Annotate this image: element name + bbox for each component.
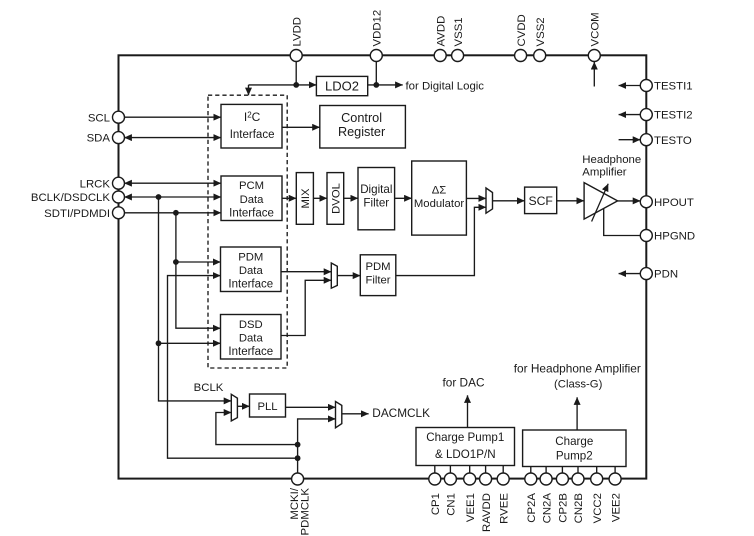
svg-text:for DAC: for DAC (443, 375, 485, 389)
mux M3 PLL clock selector (231, 394, 237, 421)
wire SDTI branch down to DSD upper input (176, 213, 221, 328)
pin VSS2 (534, 50, 546, 62)
wire SDTI/PDMDI to PCM (119, 212, 222, 214)
chip outline border (119, 55, 647, 478)
junction VDD12 rail (373, 82, 379, 88)
pin VSS1 (452, 50, 464, 62)
wire amplifier to HPOUT (618, 200, 641, 202)
wire MCKI branch to clock mux lower (216, 413, 298, 445)
pin VDD12 (370, 50, 382, 62)
svg-text:& LDO1P/N: & LDO1P/N (435, 448, 496, 461)
svg-text:Amplifier: Amplifier (582, 167, 627, 179)
op-amp headphone amplifier triangle (584, 183, 618, 220)
svg-text:Digital: Digital (360, 183, 392, 196)
block PDM Data Interface (221, 247, 282, 292)
svg-text:LRCK: LRCK (80, 178, 111, 190)
pin TESTO (640, 134, 652, 146)
svg-text:Charge Pump1: Charge Pump1 (426, 431, 504, 444)
svg-text:Interface: Interface (228, 279, 273, 291)
mux M1 DAC source selector (486, 188, 493, 213)
wire TESTO (619, 139, 641, 141)
svg-text:CN2A: CN2A (541, 493, 553, 524)
pin TESTI2 (640, 109, 652, 121)
wire SDTI branch to PDM upper input (176, 261, 221, 263)
svg-text:Interface: Interface (230, 129, 275, 141)
wire PDM mux to PDM Filter (337, 275, 360, 277)
svg-text:CP2B: CP2B (558, 493, 570, 523)
wire pin stems CP2A CN2A CP2B CN2B VCC2 VEE2 (531, 467, 615, 475)
block PDM Filter (360, 255, 396, 296)
wire PLL to DACMCLK mux upper (286, 406, 336, 408)
pin CP2B (556, 473, 568, 485)
svg-text:HPOUT: HPOUT (654, 197, 694, 209)
wire amplifier to HPGND (604, 208, 641, 235)
pin CP2A (525, 473, 537, 485)
svg-text:TESTI2: TESTI2 (654, 110, 693, 122)
pin AVDD (434, 50, 446, 62)
pin CP1 (429, 473, 441, 485)
svg-text:SCF: SCF (529, 194, 553, 208)
wire PDM Filter to DAC mux lower (396, 207, 486, 275)
pin HPOUT (640, 196, 652, 208)
pin LVDD (290, 50, 302, 62)
wire MIX to DVOL (313, 197, 327, 199)
pin HPGND (640, 230, 652, 242)
svg-text:DACMCLK: DACMCLK (372, 406, 430, 420)
svg-text:PDMCLK: PDMCLK (300, 488, 312, 536)
junction DSD lower branch (156, 340, 162, 346)
svg-text:Register: Register (338, 125, 386, 139)
svg-text:for Headphone Amplifier: for Headphone Amplifier (514, 362, 641, 376)
svg-text:VDD12: VDD12 (372, 10, 384, 47)
wire SDA to I2C (bidirectional) (124, 137, 221, 139)
wire DSD interface to PDM mux lower (281, 280, 331, 335)
svg-text:BCLK: BCLK (194, 382, 224, 394)
svg-text:(Class-G): (Class-G) (554, 379, 603, 391)
svg-text:TESTO: TESTO (654, 135, 692, 147)
svg-text:RAVDD: RAVDD (481, 493, 493, 532)
svg-text:VCC2: VCC2 (592, 493, 604, 523)
amplifier variable-gain arrow (592, 184, 609, 222)
block DVOL (327, 173, 344, 225)
svg-text:PDM: PDM (238, 251, 263, 263)
block DSD Data Interface (221, 315, 282, 360)
wire BCLK branch down to clock mux (159, 197, 232, 401)
wire DACMCLK mux output (342, 413, 369, 415)
svg-text:HPGND: HPGND (654, 231, 695, 243)
wire LRCK to PCM (bidirectional) (124, 182, 221, 184)
block Delta-Sigma Modulator U-DS (412, 161, 467, 235)
svg-text:CN1: CN1 (446, 493, 458, 516)
svg-text:PDM: PDM (365, 261, 390, 273)
junction LVDD rail (293, 82, 299, 88)
svg-text:SCL: SCL (88, 112, 110, 124)
wire LVDD drop (295, 56, 297, 85)
svg-text:CVDD: CVDD (516, 14, 528, 46)
wire BCLK/DSDCLK to PCM (bidirectional) (124, 196, 221, 198)
pin RVEE (497, 473, 509, 485)
wire LVDD rail to LDO2 (249, 84, 317, 86)
block I2C Interface (221, 104, 282, 148)
wire BCLK branch to DSD lower input (159, 342, 221, 344)
svg-text:LVDD: LVDD (291, 17, 303, 47)
svg-text:RVEE: RVEE (498, 493, 510, 524)
wire PCM to MIX (282, 197, 296, 199)
svg-text:VCOM: VCOM (590, 12, 602, 46)
wire LDO2 to for Digital Logic (368, 84, 403, 86)
svg-text:SDA: SDA (87, 133, 111, 145)
wire pin stems CP1 CN1 VEE1 RAVDD RVEE (435, 466, 503, 475)
wire DVOL to Digital Filter (344, 197, 358, 199)
dashed audio interface group box (208, 95, 287, 368)
pin SDA (113, 132, 125, 144)
pin VEE1 (464, 473, 476, 485)
svg-text:LDO2: LDO2 (325, 78, 359, 93)
wire DAC mux to SCF (493, 200, 525, 202)
wire SCL to I2C (119, 116, 222, 118)
wire I2C to Control Register (282, 126, 320, 128)
block MIX (296, 173, 313, 225)
wire arrow down into interface group (248, 85, 250, 95)
svg-text:Data: Data (240, 194, 265, 206)
pin CVDD (515, 50, 527, 62)
wire Charge Pump2 output for headphone amplifier (576, 397, 578, 430)
pin CN1 (444, 473, 456, 485)
svg-text:Pump2: Pump2 (556, 450, 593, 463)
wire TESTI2 (619, 114, 641, 116)
junction SDTI branch (173, 210, 179, 216)
svg-text:DVOL: DVOL (331, 183, 343, 214)
wire Charge Pump1 output for DAC (467, 395, 469, 427)
svg-text:MIX: MIX (300, 188, 312, 209)
pin VCC2 (591, 473, 603, 485)
svg-text:VEE1: VEE1 (465, 493, 477, 522)
svg-text:VSS2: VSS2 (535, 17, 547, 46)
svg-text:Filter: Filter (365, 274, 390, 286)
wire MCKI/PDMCLK riser to DACMCLK mux lower (298, 419, 336, 479)
wire Digital Filter to Delta-Sigma Modulator (395, 197, 412, 199)
block SCF (525, 187, 557, 214)
svg-text:for Digital Logic: for Digital Logic (406, 81, 485, 93)
svg-text:CP2A: CP2A (526, 493, 538, 523)
svg-text:Interface: Interface (229, 207, 274, 219)
svg-text:VSS1: VSS1 (453, 17, 465, 46)
junction PDM upper branch (173, 259, 179, 265)
svg-text:PLL: PLL (257, 401, 277, 413)
pin BCLK/DSDCLK (113, 191, 125, 203)
svg-text:TESTI1: TESTI1 (654, 81, 693, 93)
pin LRCK (113, 177, 125, 189)
svg-text:CN2B: CN2B (573, 493, 585, 523)
svg-text:DSD: DSD (239, 319, 263, 331)
svg-text:CP1: CP1 (430, 493, 442, 515)
block PLL (250, 394, 286, 417)
wire VDD12 drop (375, 56, 377, 85)
block PCM Data Interface (221, 176, 282, 221)
pin VEE2 (609, 473, 621, 485)
block LDO2 (316, 76, 367, 95)
svg-text:Control: Control (341, 111, 382, 125)
wire Modulator to DAC mux upper (466, 197, 486, 199)
pin SDTI/PDMDI (113, 207, 125, 219)
wire SCF to headphone amplifier (557, 200, 584, 202)
svg-text:VEE2: VEE2 (610, 493, 622, 522)
wire VCOM arrow (593, 62, 595, 87)
svg-text:Headphone: Headphone (582, 154, 641, 166)
pin CN2B (572, 473, 584, 485)
wire TESTI1 (619, 85, 641, 87)
junction MCKI to PDM clock (295, 455, 301, 461)
svg-text:BCLK/DSDCLK: BCLK/DSDCLK (31, 192, 111, 204)
svg-text:Interface: Interface (228, 346, 273, 358)
svg-text:Data: Data (239, 332, 264, 344)
pin RAVDD (480, 473, 492, 485)
svg-text:Charge: Charge (555, 435, 593, 448)
pin VCOM (588, 50, 600, 62)
svg-text:PCM: PCM (239, 180, 264, 192)
svg-text:Filter: Filter (363, 197, 389, 210)
mux M4 DACMCLK selector (336, 402, 342, 428)
wire MCKI branch to PDM lower input (168, 276, 298, 459)
block Control Register (320, 106, 406, 149)
pin SCL (113, 111, 125, 123)
pin MCKI/PDMCLK (292, 473, 304, 485)
block Charge Pump2 (523, 430, 626, 467)
svg-text:Modulator: Modulator (414, 198, 464, 210)
wire PDM interface to PDM mux upper (281, 271, 331, 273)
wire PDN (619, 273, 641, 275)
junction MCKI to mux3 lower (295, 442, 301, 448)
block Charge Pump1 and LDO1P/N (416, 428, 515, 466)
svg-text:AVDD: AVDD (435, 16, 447, 47)
pin TESTI1 (640, 80, 652, 92)
svg-text:I2C: I2C (244, 110, 261, 124)
pin PDN (640, 268, 652, 280)
junction BCLK branch (156, 194, 162, 200)
svg-text:ΔΣ: ΔΣ (432, 185, 447, 197)
pin CN2A (540, 473, 552, 485)
svg-text:PDN: PDN (654, 269, 678, 281)
svg-text:Data: Data (239, 265, 264, 277)
svg-text:SDTI/PDMDI: SDTI/PDMDI (44, 208, 110, 220)
mux M2 PDM filter input selector (331, 263, 337, 288)
block Digital Filter (358, 168, 395, 230)
wire clock mux to PLL (237, 405, 249, 407)
